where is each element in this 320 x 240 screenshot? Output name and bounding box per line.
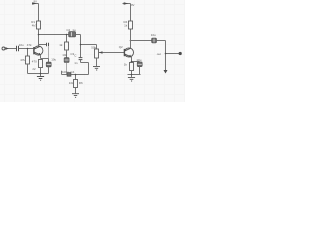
svg-text:R6: R6 (79, 81, 83, 85)
svg-text:10u: 10u (62, 53, 67, 57)
svg-text:10k: 10k (69, 81, 74, 85)
svg-text:10u: 10u (51, 57, 56, 61)
svg-text:9V: 9V (131, 3, 135, 7)
svg-text:4k7: 4k7 (32, 23, 37, 27)
svg-text:1k: 1k (124, 24, 128, 28)
svg-text:47k: 47k (20, 58, 25, 62)
svg-text:C2: C2 (66, 28, 70, 32)
svg-text:1u: 1u (72, 28, 76, 32)
svg-text:10u: 10u (136, 58, 141, 62)
svg-text:1k: 1k (124, 63, 128, 67)
svg-text:Q2: Q2 (119, 45, 123, 49)
svg-text:10u: 10u (19, 43, 24, 47)
svg-text:47k: 47k (27, 43, 32, 47)
svg-text:50k: 50k (91, 46, 96, 50)
svg-text:9V: 9V (34, 0, 38, 3)
svg-text:C: C (74, 53, 77, 57)
svg-text:100n: 100n (62, 70, 69, 74)
svg-text:470: 470 (32, 59, 37, 63)
svg-text:1k: 1k (59, 43, 63, 47)
svg-text:C4: C4 (71, 70, 75, 74)
svg-text:1n: 1n (74, 61, 78, 65)
svg-text:22: 22 (32, 67, 36, 71)
svg-text:10u: 10u (151, 33, 156, 37)
svg-text:out: out (157, 52, 161, 56)
